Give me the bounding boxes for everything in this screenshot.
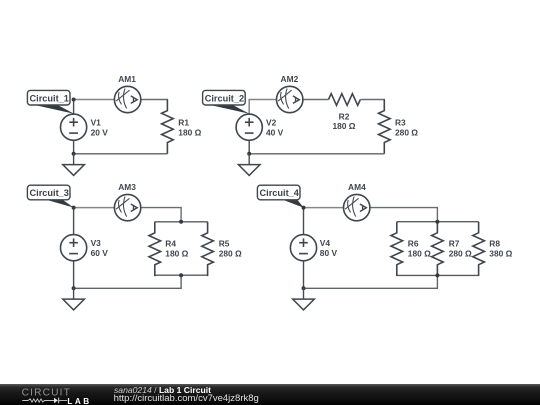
svg-text:V4: V4 xyxy=(320,238,331,248)
svg-text:Circuit_2: Circuit_2 xyxy=(205,93,244,103)
voltage source V3 xyxy=(61,235,87,261)
wire V1 bottom stub xyxy=(73,140,75,155)
svg-text:R3: R3 xyxy=(395,118,406,128)
node dot top V3 xyxy=(72,206,76,210)
svg-text:AM2: AM2 xyxy=(281,74,299,84)
ground circuit 4 xyxy=(293,288,315,310)
wire R2 to R3 corner xyxy=(360,99,384,102)
node dot top V1 xyxy=(72,98,76,102)
ammeter AM3 xyxy=(114,194,140,220)
node label Circuit_2 xyxy=(203,90,250,113)
resistor R1 xyxy=(162,100,174,154)
svg-text:V3: V3 xyxy=(91,238,102,248)
node dot bottom V4 xyxy=(302,286,306,290)
resistor R3 xyxy=(379,100,391,154)
svg-text:CIRCUIT: CIRCUIT xyxy=(22,388,71,399)
svg-text:180 Ω: 180 Ω xyxy=(165,249,188,259)
wire parallel top bar c4 xyxy=(397,221,479,223)
voltage source V1 xyxy=(61,114,87,140)
svg-text:60 V: 60 V xyxy=(91,248,109,258)
svg-text:R5: R5 xyxy=(219,239,230,249)
svg-text:280 Ω: 280 Ω xyxy=(219,249,242,259)
wire AM2 to R2 xyxy=(303,99,329,101)
wire parallel top bar xyxy=(155,221,208,223)
wire bottom rail circuit 2 xyxy=(249,153,384,155)
wire top rail V2 to AM2 xyxy=(249,100,276,115)
node dot bottom V3 xyxy=(72,286,76,290)
resistor R7 xyxy=(432,222,444,276)
wire V1 top stub xyxy=(73,100,75,115)
svg-text:AM4: AM4 xyxy=(348,182,366,192)
wire feed bottom to rail xyxy=(74,275,182,288)
node dot top V4 xyxy=(302,206,306,210)
ground circuit 2 xyxy=(238,154,260,176)
svg-text:180 Ω: 180 Ω xyxy=(332,121,355,131)
ground circuit 1 xyxy=(63,154,85,176)
node dot bottom V2 xyxy=(247,152,251,156)
node dot bottom V1 xyxy=(72,152,76,156)
resistor R4 xyxy=(149,222,161,276)
ammeter AM4 xyxy=(344,194,370,220)
wire V2 bottom stub xyxy=(248,140,250,155)
svg-text:R7: R7 xyxy=(449,239,460,249)
svg-text:R2: R2 xyxy=(339,112,350,122)
node dot parallel bottom c4 xyxy=(435,273,439,277)
node dot parallel bottom xyxy=(179,273,183,277)
wire AM1 to R1 top corner xyxy=(141,99,168,102)
resistor R8 xyxy=(473,222,485,276)
svg-text:LAB: LAB xyxy=(67,397,91,405)
svg-text:40 V: 40 V xyxy=(266,128,284,138)
svg-text:Circuit_1: Circuit_1 xyxy=(30,93,69,103)
wire parallel bottom bar xyxy=(155,274,208,276)
node label Circuit_3 xyxy=(27,185,73,207)
ground circuit 3 xyxy=(63,288,85,310)
wire AM3 to parallel top bar xyxy=(141,208,181,222)
resistor R6 xyxy=(391,222,403,276)
svg-text:AM3: AM3 xyxy=(118,182,136,192)
svg-text:280 Ω: 280 Ω xyxy=(395,128,418,138)
svg-text:80 V: 80 V xyxy=(320,248,338,258)
wire V4 bottom stub xyxy=(303,261,305,289)
wire top rail V4 to AM4 xyxy=(304,207,344,209)
svg-text:20 V: 20 V xyxy=(91,128,109,138)
svg-text:V2: V2 xyxy=(266,118,277,128)
svg-text:280 Ω: 280 Ω xyxy=(449,249,472,259)
svg-text:Circuit_4: Circuit_4 xyxy=(260,188,300,198)
svg-text:R8: R8 xyxy=(489,239,500,249)
node dot parallel top xyxy=(179,220,183,224)
footer bar xyxy=(0,384,540,405)
voltage source V2 xyxy=(236,114,262,140)
svg-text:R1: R1 xyxy=(178,118,189,128)
svg-text:V1: V1 xyxy=(91,118,102,128)
resistor R5 xyxy=(202,222,214,276)
wire V3 top stub xyxy=(73,208,75,235)
logo diode xyxy=(54,398,58,404)
footer text xyxy=(0,383,540,385)
node label Circuit_1 xyxy=(27,90,74,113)
svg-text:380 Ω: 380 Ω xyxy=(489,249,512,259)
logo resistor zigzag xyxy=(22,399,54,402)
svg-text:Circuit_3: Circuit_3 xyxy=(30,188,69,198)
svg-text:180 Ω: 180 Ω xyxy=(178,128,201,138)
wire AM4 to parallel top bar xyxy=(370,208,437,222)
ammeter AM1 xyxy=(114,86,140,112)
svg-text:180 Ω: 180 Ω xyxy=(408,249,431,259)
svg-text:R4: R4 xyxy=(165,239,176,249)
resistor R2 (horizontal) xyxy=(329,94,361,106)
wire parallel bottom bar c4 xyxy=(397,274,479,276)
wire bottom rail xyxy=(74,153,168,155)
ammeter AM2 xyxy=(277,86,303,112)
node dot parallel top c4 xyxy=(435,220,439,224)
svg-text:R6: R6 xyxy=(408,239,419,249)
wire V3 bottom stub xyxy=(73,261,75,289)
wire V4 top stub xyxy=(303,208,305,235)
voltage source V4 xyxy=(290,235,316,261)
svg-text:AM1: AM1 xyxy=(118,74,136,84)
wire top rail V1 to AM1 xyxy=(74,99,115,101)
wire feed bottom to rail c4 xyxy=(304,275,438,288)
wire top rail V3 to AM3 xyxy=(74,207,115,209)
node label Circuit_4 xyxy=(257,185,303,208)
